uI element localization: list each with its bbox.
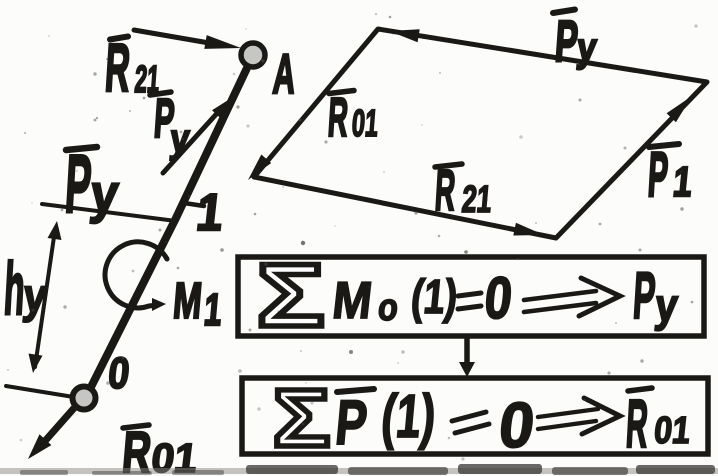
svg-text:R: R (103, 30, 132, 106)
svg-text:M: M (330, 271, 375, 330)
svg-text:A: A (271, 42, 298, 105)
svg-text:P: P (646, 140, 670, 210)
svg-text:R: R (326, 88, 350, 149)
svg-text:(1): (1) (379, 383, 439, 451)
svg-text:(1): (1) (409, 271, 460, 324)
svg-text:P: P (333, 387, 370, 457)
svg-text:01: 01 (350, 101, 379, 144)
svg-text:01: 01 (652, 410, 692, 452)
svg-text:Σ: Σ (257, 246, 324, 345)
svg-text:R: R (624, 386, 650, 462)
svg-text:M: M (171, 273, 204, 329)
svg-text:Σ: Σ (273, 372, 330, 463)
svg-text:21: 21 (460, 177, 493, 220)
